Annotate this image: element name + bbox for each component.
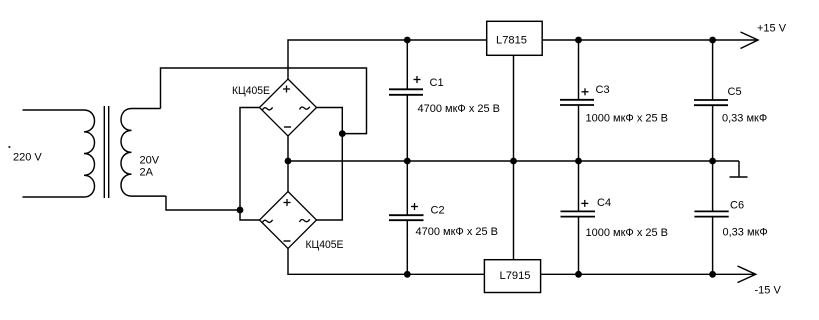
svg-text:C6: C6 <box>730 200 744 212</box>
wire bridge B1 plus to top rail <box>288 40 487 79</box>
stray mark <box>8 146 10 148</box>
arrow +15V output <box>741 32 759 49</box>
wire top rail right of U1 <box>542 39 758 41</box>
transformer T1 core <box>104 106 108 198</box>
bridge B1 ac tilde right <box>300 107 310 110</box>
wire secondary bottom to AC node left <box>166 196 240 210</box>
wire secondary top to AC node (up and across) <box>161 68 367 134</box>
junction bottom rail C2 <box>404 271 411 278</box>
junction AC node left <box>237 207 244 214</box>
svg-text:-15 V: -15 V <box>755 285 782 297</box>
svg-text:КЦ405Е: КЦ405Е <box>232 85 270 97</box>
svg-text:C1: C1 <box>430 77 444 89</box>
transformer T1 primary winding <box>23 110 95 197</box>
capacitor C3 leads <box>578 40 580 211</box>
capacitor C5 plates <box>694 100 728 105</box>
svg-text:4700 мкФ x 25 В: 4700 мкФ x 25 В <box>416 226 499 238</box>
svg-text:C5: C5 <box>728 86 742 98</box>
capacitor C1 leads <box>406 40 408 215</box>
svg-text:1000 мкФ x 25 В: 1000 мкФ x 25 В <box>586 113 669 125</box>
svg-text:КЦ405Е: КЦ405Е <box>306 239 344 251</box>
svg-text:L7915: L7915 <box>500 270 531 282</box>
regulator U2 L7915 box <box>484 260 540 293</box>
svg-text:1000 мкФ x 25 В: 1000 мкФ x 25 В <box>586 227 669 239</box>
arrow -15V output <box>738 266 756 283</box>
junction top rail C5 <box>709 37 716 44</box>
svg-text:C3: C3 <box>596 84 610 96</box>
junction AC node right <box>339 130 346 137</box>
wire bridge B1 minus to middle rail and bridge B2 plus <box>287 136 289 192</box>
svg-text:2A: 2A <box>140 167 154 179</box>
svg-text:0,33 мкФ: 0,33 мкФ <box>722 113 767 125</box>
capacitor C3 plates <box>560 100 594 105</box>
regulator U1 L7815 box <box>487 21 543 55</box>
junction middle rail at bridge column <box>285 158 292 165</box>
capacitor C1 plates <box>389 89 423 95</box>
svg-text:20V: 20V <box>140 155 160 167</box>
wire bottom rail right of U2 <box>541 273 756 275</box>
capacitor C2 leads <box>406 220 408 274</box>
junction middle rail C1/C2 <box>404 158 411 165</box>
svg-text:L7815: L7815 <box>496 35 527 47</box>
junction bottom rail C4 <box>575 271 582 278</box>
capacitor C4 plates <box>561 211 596 216</box>
capacitor C1 plus mark <box>414 76 421 83</box>
wire AC node left to bridge left vertices <box>240 108 260 221</box>
junction middle rail C3/C4 <box>575 158 582 165</box>
capacitor C6 plates <box>694 211 728 216</box>
capacitor C5 leads <box>712 40 714 211</box>
bridge B1 ac tilde left <box>262 107 272 110</box>
junction top rail C1 <box>404 37 411 44</box>
bridge B1 plus mark <box>283 86 290 93</box>
bridge B2 ac tilde right <box>300 219 310 222</box>
svg-text:0,33 мкФ: 0,33 мкФ <box>723 227 768 239</box>
bridge B2 plus mark <box>284 199 291 206</box>
wire AC node to top bridge right vertex <box>317 108 343 134</box>
ground symbol <box>730 161 748 177</box>
wire bridge B2 minus to bottom rail <box>288 249 484 275</box>
wire AC node to lower bridge right vertex <box>317 134 343 220</box>
wire middle ground rail <box>288 160 739 162</box>
capacitor C2 plus mark <box>411 203 418 210</box>
capacitor C4 leads <box>578 217 580 275</box>
bridge B1 minus mark <box>284 126 291 128</box>
junction middle rail C5/C6 <box>709 158 716 165</box>
wire regulator ground pins column <box>513 55 515 259</box>
capacitor C6 leads <box>712 217 714 275</box>
capacitor C4 plus mark <box>581 200 588 207</box>
bridge rectifier B2 (bottom) diamond <box>260 192 317 249</box>
svg-text:220 V: 220 V <box>13 152 42 164</box>
bridge rectifier B1 (top) diamond <box>260 79 317 136</box>
bridge B2 ac tilde left <box>262 220 272 223</box>
capacitor C3 plus mark <box>582 88 589 95</box>
svg-text:C4: C4 <box>597 197 611 209</box>
transformer T1 secondary winding <box>121 109 166 197</box>
junction middle rail regulators <box>510 158 517 165</box>
capacitor C2 plates <box>389 215 424 220</box>
junction bottom rail C6 <box>709 271 716 278</box>
junction top rail C3 <box>575 37 582 44</box>
svg-text:4700 мкФ x 25 В: 4700 мкФ x 25 В <box>418 103 501 115</box>
svg-text:C2: C2 <box>431 205 445 217</box>
svg-text:+15 V: +15 V <box>757 23 787 35</box>
bridge B2 minus mark <box>284 240 291 242</box>
